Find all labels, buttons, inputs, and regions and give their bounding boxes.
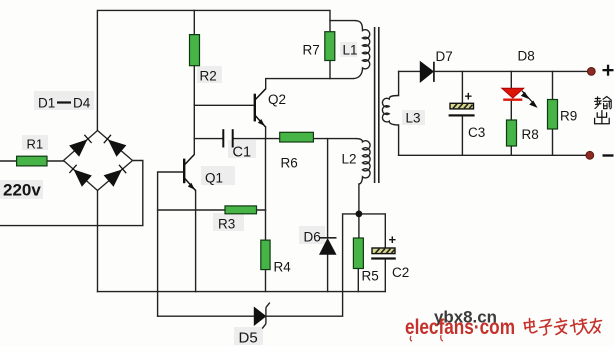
resistor R7 bbox=[325, 32, 335, 61]
output terminal + bbox=[587, 68, 595, 76]
svg-text:R9: R9 bbox=[560, 109, 577, 124]
svg-text:+: + bbox=[389, 232, 397, 247]
capacitor C1 bbox=[223, 129, 232, 147]
wire C1 horizontal bbox=[194, 138, 265, 140]
wire R6 horizontal bbox=[266, 138, 357, 140]
wire R1 to bridge left vertex bbox=[47, 160, 64, 162]
svg-text:D7: D7 bbox=[436, 49, 453, 64]
svg-text:Q2: Q2 bbox=[268, 92, 286, 107]
resistor R1 bbox=[17, 156, 47, 166]
svg-text:elecfans·com: elecfans·com bbox=[405, 315, 515, 339]
diode D3 (lower-left) bbox=[69, 165, 91, 186]
svg-text:R3: R3 bbox=[218, 217, 235, 232]
transformer core bbox=[375, 27, 379, 183]
label output chinese 输 bbox=[595, 97, 612, 109]
transistor Q2 bbox=[255, 89, 266, 127]
wire Q1 emitter column bbox=[195, 191, 197, 292]
svg-text:R5: R5 bbox=[362, 269, 379, 284]
wire R2 column bbox=[193, 10, 195, 154]
svg-text:R7: R7 bbox=[303, 43, 320, 58]
wire R9 leads bbox=[552, 71, 554, 155]
LED D8 bbox=[502, 88, 536, 107]
svg-text:Q1: Q1 bbox=[205, 171, 223, 186]
resistor R6 bbox=[280, 132, 314, 142]
watermark chinese 发 bbox=[555, 319, 567, 335]
label output plus bbox=[603, 65, 614, 76]
wire C2 branch bbox=[359, 214, 385, 292]
wire bridge bottom column bbox=[97, 191, 99, 292]
wire Q2 collector to L1/R7 bbox=[266, 79, 353, 89]
output terminal - bbox=[586, 151, 594, 159]
svg-text:D6: D6 bbox=[304, 230, 321, 245]
wire Q2 emitter column bbox=[265, 127, 267, 139]
inductor L1 (transformer primary top) bbox=[353, 21, 370, 79]
resistor R3 bbox=[225, 206, 257, 214]
resistor R4 bbox=[261, 240, 270, 270]
svg-text:R1: R1 bbox=[27, 136, 44, 151]
zener diode D5 bbox=[254, 303, 269, 329]
label output minus bbox=[603, 154, 614, 156]
diode D6 bbox=[319, 238, 336, 255]
wire R7 leads bbox=[329, 21, 331, 79]
svg-text:R4: R4 bbox=[274, 260, 292, 275]
resistor R5 bbox=[353, 238, 363, 269]
svg-text:R8: R8 bbox=[522, 127, 539, 142]
diode D2 (upper-right) bbox=[104, 135, 126, 156]
resistor R9 bbox=[548, 100, 558, 130]
wire D5 rail bbox=[158, 214, 359, 316]
wire Q2 base bbox=[194, 104, 254, 106]
capacitor C3 electrolytic bbox=[449, 103, 475, 116]
svg-text:C2: C2 bbox=[392, 265, 409, 280]
watermark chinese 友 bbox=[589, 319, 602, 334]
wire bottom rail bbox=[98, 291, 386, 293]
svg-text:L2: L2 bbox=[342, 152, 357, 167]
resistor R2 bbox=[190, 35, 200, 66]
svg-text:D4: D4 bbox=[73, 96, 91, 111]
wire L2 bottom lead bbox=[358, 184, 360, 214]
svg-text:C3: C3 bbox=[468, 125, 485, 140]
label output chinese 出 bbox=[595, 111, 610, 124]
wire R5 leads bbox=[357, 214, 360, 292]
transistor Q1 bbox=[184, 155, 195, 191]
inductor L2 (transformer primary bottom) bbox=[356, 139, 370, 184]
diode D4 (lower-right) bbox=[105, 165, 127, 186]
watermark chinese 烧 bbox=[571, 319, 589, 335]
svg-text:L1: L1 bbox=[343, 43, 358, 58]
wire C3 leads bbox=[461, 71, 463, 155]
diode D1 (upper-left) bbox=[70, 135, 92, 156]
wire D6 column bbox=[327, 139, 329, 292]
wire D8 LED column bbox=[510, 71, 512, 155]
svg-text:L3: L3 bbox=[406, 111, 421, 126]
wire Q1 base column bbox=[158, 172, 184, 316]
inductor L3 (secondary) bbox=[382, 96, 398, 126]
wire top rail bbox=[97, 10, 355, 130]
svg-text:R6: R6 bbox=[281, 156, 298, 171]
watermark chinese 电 bbox=[524, 319, 537, 333]
wire secondary top rail bbox=[399, 70, 592, 72]
bridge rectifier D1-D4 diamond bbox=[64, 131, 133, 191]
wire secondary bottom rail bbox=[399, 154, 590, 156]
capacitor C2 electrolytic bbox=[371, 248, 396, 260]
resistor R8 bbox=[507, 120, 517, 146]
svg-text:+: + bbox=[465, 89, 473, 104]
svg-text:D8: D8 bbox=[518, 49, 535, 64]
junction node (L2/R5/C2/D5) bbox=[356, 211, 363, 218]
watermark chinese 子 bbox=[540, 320, 552, 336]
diode D7 bbox=[420, 62, 434, 82]
svg-text:R2: R2 bbox=[200, 69, 217, 84]
svg-text:C1: C1 bbox=[233, 145, 252, 161]
wire L3 leads bbox=[398, 71, 400, 155]
svg-text:D1: D1 bbox=[38, 96, 55, 111]
wire AC return bottom bbox=[0, 161, 143, 226]
svg-text:220v: 220v bbox=[3, 181, 41, 200]
wire R4 column bbox=[265, 139, 267, 292]
wire AC input top stub bbox=[0, 160, 17, 162]
svg-text:D5: D5 bbox=[239, 330, 258, 347]
wire R3 leads bbox=[158, 209, 266, 211]
